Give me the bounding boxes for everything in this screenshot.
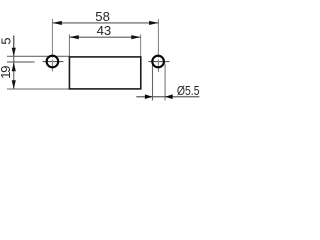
svg-text:19: 19 <box>0 66 13 79</box>
dimension line vertical for 5 and 19 <box>13 36 15 49</box>
arrow diameter right (points left) <box>165 94 173 99</box>
arrow 58 left <box>53 21 62 25</box>
right hole centre mark horizontal <box>148 61 169 63</box>
svg-text:Ø5.5: Ø5.5 <box>177 83 200 98</box>
arrow: dim 19 upper (points up at centre line) <box>12 62 16 71</box>
arrow 58 right <box>149 21 158 25</box>
svg-text:5: 5 <box>0 37 13 44</box>
dimension 43 extension right <box>140 34 142 57</box>
hole diameter extension line right <box>164 64 166 101</box>
hole diameter extension line left <box>152 64 154 101</box>
left hole centre mark vertical + dim 58 left extension <box>51 19 53 58</box>
body outline (front view rectangle) <box>69 57 140 89</box>
arrow 43 left <box>69 35 78 39</box>
left hole centre mark horizontal <box>43 61 64 63</box>
dimension 58 line <box>53 22 159 24</box>
arrow: dim 5 upper (points down at top ref line) <box>12 48 16 57</box>
dimension 43 extension left (above body corner) <box>68 34 70 57</box>
arrow diameter left (points right) <box>145 94 153 99</box>
svg-text:58: 58 <box>95 9 110 24</box>
extension line: top edge extended left (ref for dim 5) <box>7 55 69 57</box>
arrow: dim 19 lower (points down at bottom line) <box>12 80 16 89</box>
hole diameter dimension line with tails <box>136 96 199 98</box>
left hole circle <box>47 56 59 68</box>
right hole circle <box>152 56 164 68</box>
centre line through hole centres, left piece <box>7 61 35 63</box>
dimension 43 line <box>69 36 140 38</box>
svg-text:43: 43 <box>97 23 112 38</box>
right hole centre mark vertical + dim 58 right extension <box>157 19 159 58</box>
arrow 43 right <box>131 35 140 39</box>
extension line: bottom edge extended left (ref for dim 19) <box>7 88 69 90</box>
